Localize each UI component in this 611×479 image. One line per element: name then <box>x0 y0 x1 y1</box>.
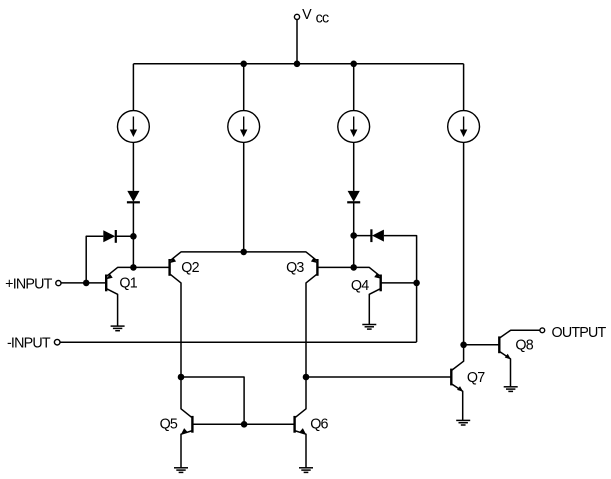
svg-text:Q2: Q2 <box>181 260 199 276</box>
svg-text:Q6: Q6 <box>310 416 328 432</box>
svg-text:Q8: Q8 <box>515 338 533 354</box>
svg-text:Q7: Q7 <box>467 370 485 386</box>
svg-text:-INPUT: -INPUT <box>7 335 51 351</box>
svg-text:Q4: Q4 <box>351 278 369 294</box>
svg-text:OUTPUT: OUTPUT <box>552 325 607 341</box>
svg-text:+INPUT: +INPUT <box>5 276 53 292</box>
svg-text:Q1: Q1 <box>119 275 137 291</box>
svg-text:V: V <box>302 7 312 23</box>
svg-text:cc: cc <box>316 11 329 27</box>
svg-text:Q5: Q5 <box>160 416 178 432</box>
svg-text:Q3: Q3 <box>286 260 304 276</box>
